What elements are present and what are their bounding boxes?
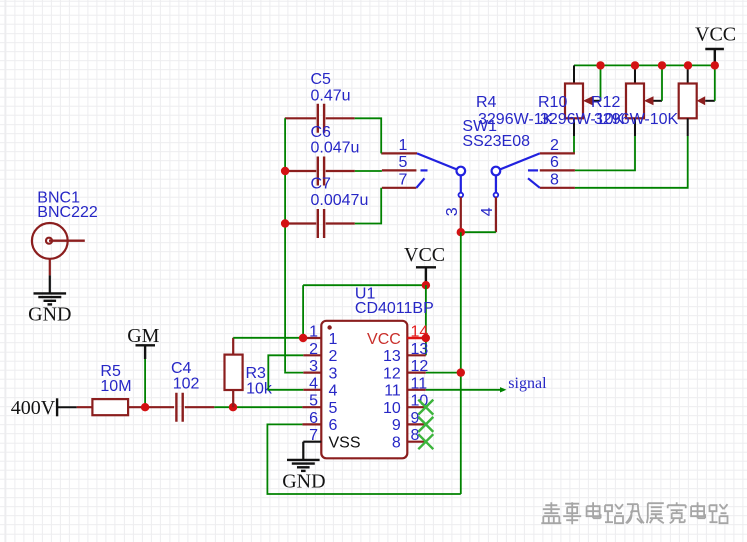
wire R10 wiper drop xyxy=(661,65,663,100)
svg-text:13: 13 xyxy=(411,341,429,358)
svg-text:R3: R3 xyxy=(246,365,267,382)
switch SW1 pin 1 stub xyxy=(381,152,417,154)
svg-text:3: 3 xyxy=(309,358,318,375)
U1 pin 3 stub xyxy=(303,372,321,374)
U1 pin 14 stub xyxy=(407,337,426,339)
U1 pin 12 stub xyxy=(407,372,426,374)
wire pin6 loop to pole bus xyxy=(267,424,460,494)
svg-text:GM: GM xyxy=(127,325,159,347)
capacitor C4 xyxy=(176,393,214,422)
svg-text:1: 1 xyxy=(309,324,318,341)
svg-text:5: 5 xyxy=(309,393,318,410)
svg-text:4: 4 xyxy=(309,375,318,392)
svg-text:3: 3 xyxy=(329,365,338,382)
junction dots on VCC rail xyxy=(596,61,604,69)
switch SW1 pin 2 stub xyxy=(540,152,575,154)
U1 pin 2 stub xyxy=(303,354,321,356)
switch SW1 pin 7 stub xyxy=(382,187,417,189)
wire pot R4 top stub xyxy=(573,65,575,83)
wire caps left bus xyxy=(284,118,286,372)
resistor R5 xyxy=(77,399,174,415)
capacitor C6 xyxy=(285,157,355,186)
svg-text:0.0047u: 0.0047u xyxy=(311,192,369,209)
wire U1 pin7 to ground xyxy=(302,442,304,460)
电 xyxy=(691,502,705,518)
switch SW1 pin 5 stub xyxy=(382,169,417,171)
svg-text:0.047u: 0.047u xyxy=(311,139,360,156)
svg-text:10: 10 xyxy=(383,400,401,417)
wire C4 to pin5 xyxy=(214,406,302,408)
U1 pin 4 stub xyxy=(303,389,321,391)
no-connect X pin8 xyxy=(418,434,433,449)
U1 pin 9 stub xyxy=(407,423,426,425)
svg-text:1: 1 xyxy=(329,331,338,348)
switch SW1 pole 1 lever and contacts xyxy=(416,153,465,197)
svg-text:6: 6 xyxy=(329,417,338,434)
junction U1 pin1 xyxy=(299,334,307,342)
svg-text:4: 4 xyxy=(479,207,496,216)
革 xyxy=(563,502,581,524)
junction VCC xyxy=(422,281,430,289)
路 xyxy=(710,504,728,523)
junction GM xyxy=(141,403,149,411)
title text (Chinese, drawn) xyxy=(541,502,727,524)
U1 pin 5 stub xyxy=(302,406,321,408)
svg-text:2: 2 xyxy=(329,348,338,365)
svg-text:5: 5 xyxy=(399,154,408,171)
svg-text:2: 2 xyxy=(550,137,559,154)
U1 pin 10 stub xyxy=(407,406,426,408)
wire pot R10 top stub xyxy=(634,65,636,83)
wire pin11 signal xyxy=(426,389,504,391)
svg-text:VCC: VCC xyxy=(367,331,401,348)
junction R3 bottom xyxy=(229,403,237,411)
svg-text:0.47u: 0.47u xyxy=(311,87,351,104)
connector BNC1 xyxy=(32,223,85,275)
no-connect X pin10 xyxy=(418,400,433,415)
junction U1 pin14 xyxy=(422,334,430,342)
svg-text:10M: 10M xyxy=(100,378,131,395)
svg-text:8: 8 xyxy=(550,171,559,188)
宽 xyxy=(668,502,686,523)
svg-text:102: 102 xyxy=(173,376,200,393)
U1 pin 11 stub xyxy=(407,389,426,391)
路 xyxy=(605,504,623,523)
svg-text:12: 12 xyxy=(411,358,429,375)
power symbol VCC (top right) xyxy=(695,24,736,65)
U1 pin 1 stub xyxy=(303,337,321,339)
switch SW1 pin 4 stub xyxy=(495,197,497,232)
svg-text:R10: R10 xyxy=(538,94,567,111)
svg-text:VSS: VSS xyxy=(329,435,361,452)
wire pot R12 top stub xyxy=(687,65,689,83)
junction C6 left xyxy=(281,167,289,175)
capacitor C5 xyxy=(285,104,355,133)
svg-text:11: 11 xyxy=(411,375,428,392)
wire C5 right to SW1 pin1 xyxy=(355,118,382,153)
svg-text:7: 7 xyxy=(309,427,318,444)
svg-text:VCC: VCC xyxy=(695,24,736,46)
svg-text:C4: C4 xyxy=(171,360,192,377)
power symbol VCC (above U1) xyxy=(404,244,445,283)
svg-text:400V: 400V xyxy=(11,397,56,419)
wire GM down xyxy=(144,359,146,407)
U1 pin 8 stub xyxy=(407,441,426,443)
svg-text:R4: R4 xyxy=(476,94,497,111)
电 xyxy=(587,502,601,518)
wire VCC to pin1 net xyxy=(302,285,304,338)
svg-text:12: 12 xyxy=(383,365,401,382)
wire C6 right to SW1 pin5 xyxy=(355,170,382,172)
展 xyxy=(647,503,664,523)
svg-text:2: 2 xyxy=(309,341,318,358)
wire R3 top to U1 pin1 xyxy=(233,337,303,339)
svg-text:3: 3 xyxy=(444,207,461,216)
junction pin12 xyxy=(457,368,465,376)
svg-text:13: 13 xyxy=(383,348,401,365)
svg-text:SS23E08: SS23E08 xyxy=(462,133,530,150)
U1 pin 7 stub (covered by wire) xyxy=(303,441,321,443)
ground symbol U1 xyxy=(282,460,325,493)
wire C7 right to SW1 pin7 xyxy=(355,188,381,224)
svg-text:6: 6 xyxy=(309,410,318,427)
svg-text:11: 11 xyxy=(384,383,401,400)
capacitor C7 xyxy=(285,209,355,238)
wire pin3 from caps bus xyxy=(285,371,303,374)
及 xyxy=(626,504,644,523)
switch SW1 pole 2 lever and contacts xyxy=(492,153,540,197)
potentiometer R10 body xyxy=(626,84,662,119)
wire VCC top rail xyxy=(574,64,715,66)
switch SW1 pin 8 stub xyxy=(540,187,575,189)
wire pin12 to pole bus xyxy=(426,372,461,374)
port 400V xyxy=(11,397,77,419)
switch SW1 pin 3 stub xyxy=(460,197,462,232)
svg-text:4: 4 xyxy=(329,383,338,400)
svg-text:3296W-10K: 3296W-10K xyxy=(594,111,679,128)
wire R10 bottom to SW1 pin 6 xyxy=(634,118,636,136)
svg-text:5: 5 xyxy=(329,400,338,417)
potentiometer R4 body xyxy=(565,84,601,119)
svg-text:VCC: VCC xyxy=(404,244,445,266)
svg-text:9: 9 xyxy=(392,417,401,434)
junction C7 left xyxy=(281,219,289,227)
wire pole4 to pole3 xyxy=(461,231,496,233)
svg-text:BNC222: BNC222 xyxy=(37,204,98,221)
svg-text:CD4011BP: CD4011BP xyxy=(355,300,434,317)
wire VCC to pin14 xyxy=(425,285,427,355)
wire pole bus down xyxy=(460,232,462,494)
wire R12 bottom to SW1 pin 8 xyxy=(687,118,689,136)
resistor R3 xyxy=(225,338,243,407)
wire pin2 jog xyxy=(268,355,303,390)
svg-text:C7: C7 xyxy=(311,175,332,192)
wire VCC horizontal above U1 xyxy=(303,284,426,286)
U1 pin 6 stub xyxy=(302,423,321,425)
svg-text:signal: signal xyxy=(508,375,547,392)
potentiometer R12 body xyxy=(679,84,715,119)
svg-text:1: 1 xyxy=(399,137,408,154)
wire R4 wiper drop xyxy=(600,65,602,100)
ground symbol BNC xyxy=(28,275,71,325)
power symbol GM xyxy=(127,325,159,359)
svg-text:7: 7 xyxy=(399,171,408,188)
IC U1 body xyxy=(321,321,407,459)
no-connect X pin9 xyxy=(418,417,433,432)
svg-text:C5: C5 xyxy=(311,71,332,88)
junction node poles xyxy=(457,228,465,236)
wire R4 bottom to SW1 pin 2 xyxy=(573,118,575,136)
svg-text:GND: GND xyxy=(28,304,71,326)
svg-text:R12: R12 xyxy=(591,94,620,111)
svg-text:GND: GND xyxy=(282,471,325,493)
svg-text:8: 8 xyxy=(392,435,401,452)
U1 pin 13 stub xyxy=(407,354,426,356)
switch SW1 pin 6 stub xyxy=(540,169,575,171)
svg-text:6: 6 xyxy=(550,154,559,171)
wire R12 wiper drop xyxy=(714,65,716,100)
盖 xyxy=(541,502,561,523)
